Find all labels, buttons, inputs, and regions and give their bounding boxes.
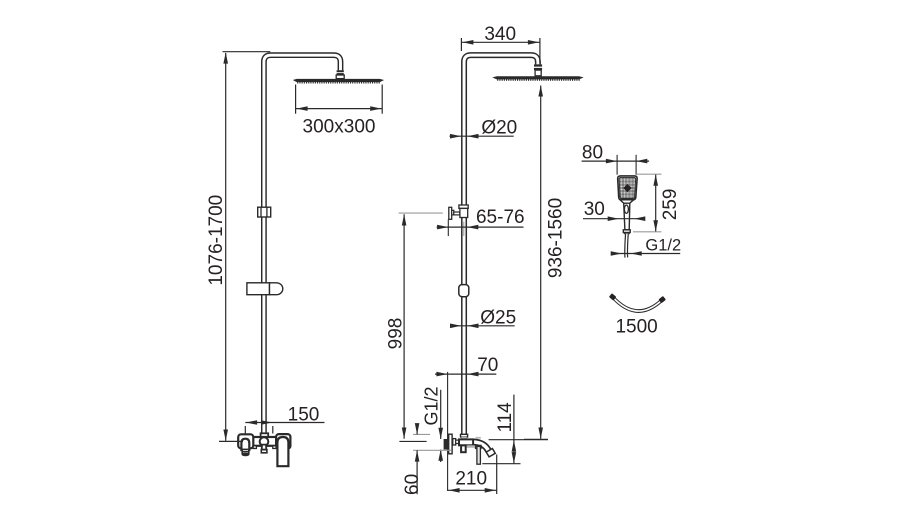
svg-text:300x300: 300x300 [303,117,376,138]
svg-text:65-76: 65-76 [476,207,525,228]
svg-text:150: 150 [288,405,320,426]
svg-text:1076-1700: 1076-1700 [206,195,227,286]
svg-text:998: 998 [386,318,407,350]
svg-text:60: 60 [402,474,423,495]
svg-text:114: 114 [495,402,516,433]
svg-text:340: 340 [484,24,516,45]
svg-text:70: 70 [477,355,498,376]
svg-text:Ø25: Ø25 [480,308,516,329]
svg-text:1500: 1500 [615,317,657,338]
svg-text:936-1560: 936-1560 [546,198,567,278]
svg-text:30: 30 [584,199,605,220]
svg-text:259: 259 [660,189,681,221]
svg-text:G1/2: G1/2 [422,386,442,425]
svg-text:G1/2: G1/2 [645,237,681,255]
svg-text:210: 210 [455,469,487,490]
svg-text:Ø20: Ø20 [481,118,517,139]
svg-text:80: 80 [582,142,603,163]
